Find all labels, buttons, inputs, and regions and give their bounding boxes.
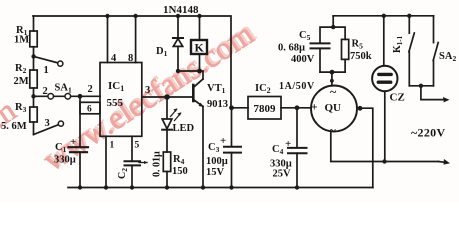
- svg-text:0. 68µ: 0. 68µ: [278, 43, 305, 54]
- resistor R5: [342, 39, 349, 59]
- node pins 2-6 junction: [78, 94, 83, 99]
- svg-text:~: ~: [330, 123, 337, 137]
- mains lower prong arrow: [439, 159, 451, 165]
- capacitor C5 plates: [311, 43, 330, 48]
- wire D1 column lower: [177, 46, 179, 71]
- wire pin 4: [107, 16, 109, 63]
- wire CZ column lower: [384, 91, 386, 161]
- svg-text:+: +: [311, 102, 318, 114]
- svg-text:+: +: [70, 136, 76, 148]
- svg-text:+: +: [285, 138, 291, 150]
- wire R5 column upper: [333, 27, 345, 39]
- junction SA1 tap1: [31, 54, 35, 58]
- junction CZ AC line: [382, 159, 386, 163]
- wire C1 to ground rail: [79, 152, 81, 187]
- wire pin 5 to C2: [131, 136, 133, 160]
- svg-text:6: 6: [87, 105, 92, 115]
- svg-text:555: 555: [107, 97, 124, 109]
- junction K1-1 top rail: [407, 14, 411, 18]
- watermark www.elecfans.com: [0, 13, 261, 178]
- svg-text:4: 4: [111, 53, 117, 64]
- wire pin 3 output: [142, 96, 193, 98]
- IC2 7809 box: [248, 97, 281, 120]
- junction R4 ground: [165, 185, 169, 189]
- capacitor C2 plates: [125, 161, 141, 165]
- svg-text:0. 01µ: 0. 01µ: [152, 151, 163, 177]
- junction K top rail: [197, 14, 201, 18]
- junction pin8 top rail: [133, 14, 137, 18]
- junction 7809 input node: [229, 105, 234, 110]
- svg-text:7809: 7809: [254, 103, 277, 115]
- svg-text:2: 2: [88, 84, 93, 95]
- svg-text:400V: 400V: [291, 54, 315, 65]
- socket CZ slots: [378, 74, 391, 82]
- junction QU minus terminal: [358, 106, 363, 111]
- wire emitter to ground: [202, 107, 204, 188]
- svg-text:3: 3: [145, 85, 150, 96]
- wire C5 lower to join: [319, 48, 321, 72]
- capacitor C1 plates: [69, 147, 89, 152]
- junction pin1 ground: [104, 185, 108, 189]
- wire SA1 wiper line: [34, 95, 101, 97]
- wire SA1 tap 3 diagonal: [34, 125, 59, 135]
- wire left rail segment D: [33, 122, 35, 135]
- relay coil K box: [191, 40, 207, 54]
- wire right top rail: [333, 15, 433, 17]
- wire switch join: [409, 85, 433, 87]
- svg-text:9013: 9013: [207, 99, 228, 110]
- SA1 wiper pivot circle: [65, 94, 71, 100]
- wire supply column C3 upper: [231, 108, 233, 146]
- wire LED to R4: [166, 130, 168, 152]
- wire SA1 tap 1 diagonal: [34, 56, 58, 63]
- SA1 contact circle 3: [58, 121, 63, 126]
- svg-text:1A/50V: 1A/50V: [279, 81, 315, 92]
- junction C5-R5 join: [330, 70, 335, 75]
- resistor R1: [30, 31, 37, 47]
- svg-text:1N4148: 1N4148: [163, 4, 199, 16]
- transistor VT1: [193, 79, 204, 107]
- wire C2 to ground: [131, 165, 133, 187]
- IC1 555 box: [100, 63, 142, 137]
- svg-text:+: +: [220, 135, 226, 147]
- diode D1 symbol: [173, 38, 183, 46]
- resistor R2: [30, 70, 37, 88]
- switch K1-1: [409, 16, 414, 86]
- wire pin 8: [135, 16, 137, 63]
- junction C4 output node: [295, 105, 300, 110]
- junction switch join: [419, 84, 423, 88]
- svg-text:5. 6M: 5. 6M: [1, 121, 27, 132]
- SA1 contact circle 2: [48, 94, 54, 100]
- svg-text:3: 3: [45, 118, 50, 129]
- svg-text:~220V: ~220V: [411, 126, 445, 140]
- svg-text:150: 150: [172, 166, 188, 177]
- svg-text:330µ: 330µ: [54, 155, 76, 166]
- SA1 contact circle 1: [58, 61, 63, 66]
- wire C4 column: [296, 108, 298, 148]
- junction SA1 tap2: [31, 94, 35, 98]
- junction C5 jog: [331, 25, 335, 29]
- junction C2 ground: [130, 185, 134, 189]
- svg-text:1M: 1M: [14, 35, 29, 46]
- LED emission arrows: [171, 108, 182, 120]
- wire C5-R5 join to QU top: [320, 72, 345, 86]
- resistor R3: [30, 107, 37, 122]
- svg-text:15V: 15V: [206, 167, 225, 178]
- junction D1 jumper: [176, 69, 180, 73]
- svg-text:1: 1: [110, 141, 115, 151]
- junction C4 ground: [295, 185, 299, 189]
- wire LED branch vertical: [166, 97, 168, 119]
- junction emitter ground: [201, 185, 205, 189]
- wire left rail segment A: [33, 16, 35, 31]
- svg-text:1: 1: [44, 65, 49, 76]
- junction C3 ground: [229, 185, 233, 189]
- wire QU right to ground rail: [357, 108, 373, 187]
- wire K column upper: [199, 16, 201, 40]
- junction C1 ground: [78, 185, 82, 189]
- wire R5 lower to join: [344, 59, 346, 72]
- wire C5 jog from top rail: [320, 16, 333, 43]
- svg-text:25V: 25V: [273, 169, 292, 180]
- junction CZ top rail: [382, 14, 386, 18]
- arrow from C2 to 0.01u label: [139, 161, 148, 164]
- wire C3 to ground: [231, 153, 233, 188]
- wire left rail segment C: [33, 88, 35, 107]
- capacitor C3 plates: [224, 147, 241, 153]
- wire K column lower: [199, 54, 201, 71]
- svg-text:CZ: CZ: [390, 92, 405, 104]
- svg-text:2: 2: [43, 86, 48, 97]
- LED diode symbol: [162, 119, 172, 130]
- wire top rail: [33, 16, 231, 108]
- capacitor C4 plates: [288, 148, 307, 153]
- svg-text:5: 5: [135, 141, 140, 151]
- resistor R4: [163, 152, 170, 172]
- junction D1 top rail: [176, 14, 180, 18]
- wire D1-K jumper to collector: [178, 71, 203, 79]
- wire pin 1 to ground: [105, 136, 107, 187]
- junction pin4 top rail: [105, 14, 109, 18]
- socket CZ circle: [372, 66, 397, 91]
- wire D1 column upper: [177, 16, 179, 38]
- wire 7809 output to QU: [281, 107, 311, 109]
- wire node pins2-6 vertical down to C1: [79, 96, 81, 147]
- svg-text:100µ: 100µ: [206, 156, 228, 167]
- junction K jumper: [197, 69, 202, 74]
- wire left rail segment B: [33, 47, 35, 70]
- wire 7809 input: [232, 107, 249, 109]
- mains upper prong arrow: [421, 86, 450, 103]
- wire C4 to ground: [296, 153, 298, 187]
- svg-text:750k: 750k: [350, 51, 372, 62]
- pin 6 tab box: [80, 102, 100, 114]
- node pin3 LED junction: [164, 94, 170, 100]
- wire CZ column upper: [383, 16, 385, 66]
- wire ground bottom rail: [68, 187, 373, 189]
- switch SA2: [433, 16, 438, 86]
- svg-text:~: ~: [330, 85, 337, 99]
- bridge rectifier QU circle: [311, 86, 357, 132]
- svg-text:LED: LED: [173, 123, 195, 134]
- wire QU bottom AC line: [331, 131, 439, 161]
- junction QU top terminal: [330, 79, 334, 83]
- svg-text:K: K: [195, 41, 205, 55]
- wire R4 to ground: [166, 172, 168, 188]
- svg-text:QU: QU: [325, 102, 342, 114]
- svg-text:8: 8: [128, 53, 133, 64]
- svg-text:2M: 2M: [14, 76, 29, 87]
